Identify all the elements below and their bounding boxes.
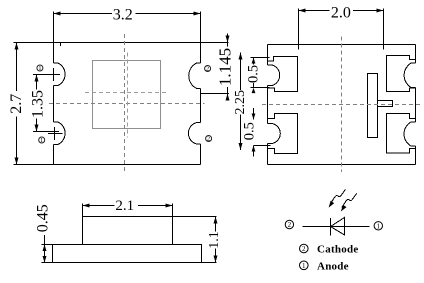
svg-text:0.45: 0.45 [35,204,52,232]
svg-text:0.5: 0.5 [241,122,257,140]
svg-text:1: 1 [38,65,41,72]
svg-text:2: 2 [302,245,306,253]
svg-text:1.35: 1.35 [29,90,46,118]
svg-text:2: 2 [206,66,209,73]
svg-text:2: 2 [288,221,292,229]
svg-text:1: 1 [40,137,43,144]
svg-text:1: 1 [377,222,381,230]
svg-text:1.1: 1.1 [207,231,222,249]
svg-text:1: 1 [302,262,306,270]
svg-text:0.5: 0.5 [245,65,261,83]
svg-text:3.2: 3.2 [113,7,133,24]
svg-text:Cathode: Cathode [317,244,358,256]
svg-text:2.1: 2.1 [115,198,134,214]
svg-text:Anode: Anode [317,260,349,272]
svg-text:2.25: 2.25 [233,90,248,115]
svg-text:2.7: 2.7 [8,94,25,114]
svg-text:1.145: 1.145 [215,48,234,86]
svg-text:2.0: 2.0 [331,4,351,21]
svg-text:2: 2 [207,136,210,143]
